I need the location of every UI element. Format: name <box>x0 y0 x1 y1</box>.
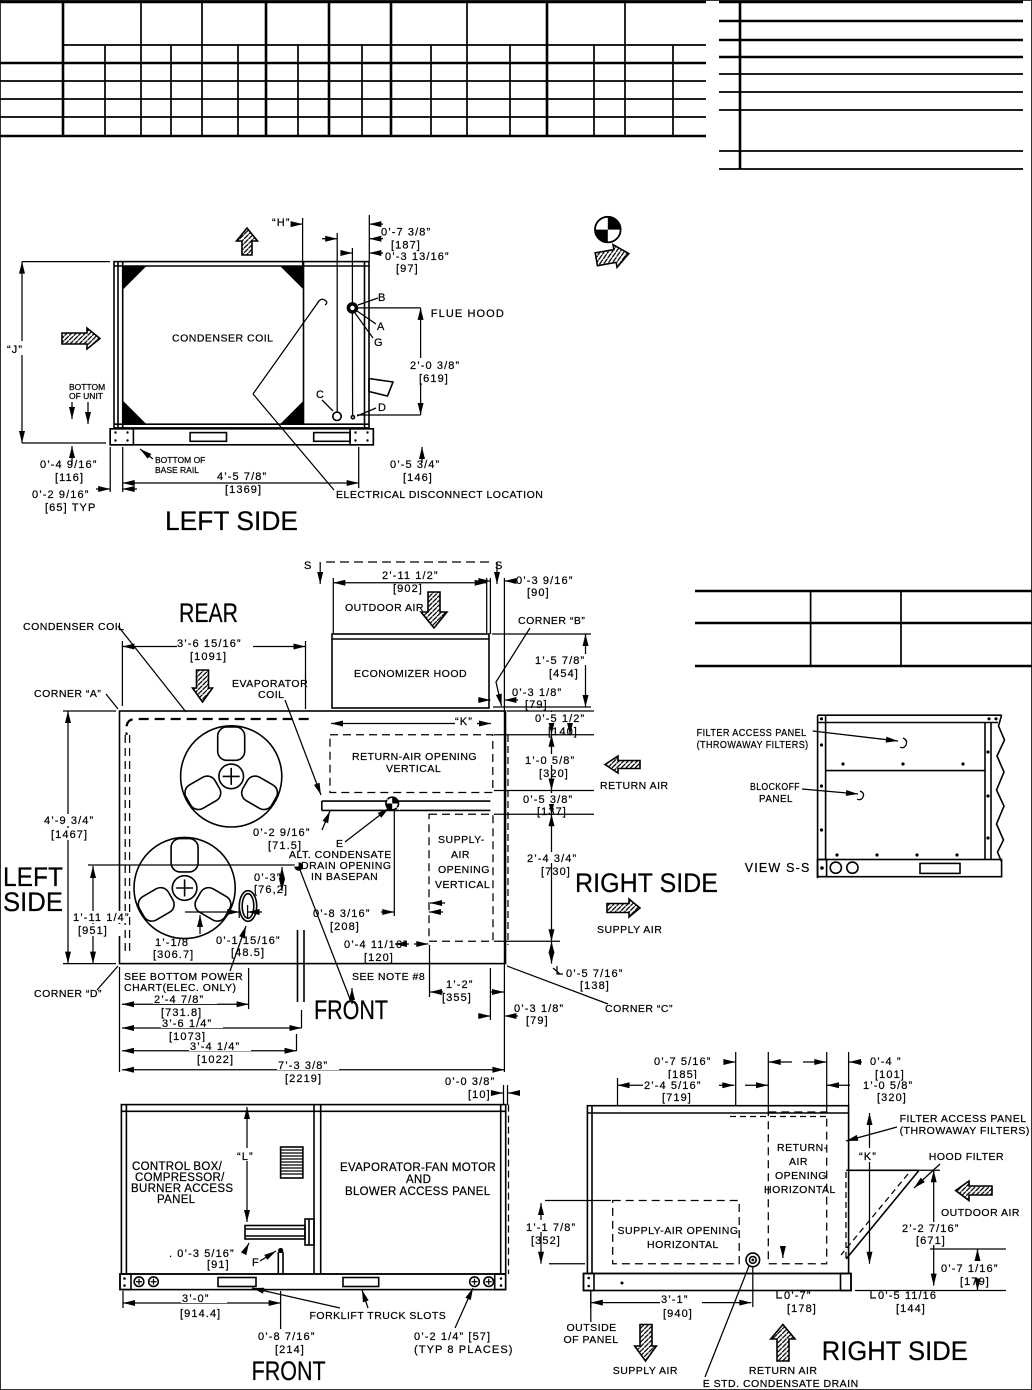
svg-text:[1022]: [1022] <box>197 1054 234 1066</box>
svg-text:CORNER “D”: CORNER “D” <box>34 988 102 1000</box>
filter access panel label (right side) <box>846 1113 1030 1141</box>
svg-text:[454]: [454] <box>549 668 579 680</box>
svg-text:VERTICAL: VERTICAL <box>435 879 490 891</box>
right side base rail <box>584 1274 852 1291</box>
dim 0'-4 11/16 [120] <box>344 939 428 964</box>
svg-text:[719]: [719] <box>662 1092 692 1104</box>
unit outline (plan) <box>120 711 506 964</box>
E condensate labels <box>289 808 392 883</box>
dim 0'-7 3/8 [187] <box>322 227 431 413</box>
svg-text:FORKLIFT TRUCK SLOTS: FORKLIFT TRUCK SLOTS <box>310 1310 447 1322</box>
dim 2'-2 7/16 [671] <box>901 1170 971 1285</box>
svg-text:HORIZONTAL: HORIZONTAL <box>764 1184 836 1196</box>
svg-text:(THROWAWAY FILTERS): (THROWAWAY FILTERS) <box>900 1125 1030 1137</box>
see bottom power chart <box>124 926 246 994</box>
filter access panel label <box>697 727 907 751</box>
svg-text:PANEL: PANEL <box>759 793 793 805</box>
dim 3'-0 [914.4] <box>123 1291 281 1329</box>
corner B label <box>496 615 585 706</box>
svg-text:4’-9 3/4”: 4’-9 3/4” <box>44 815 94 827</box>
svg-text:[208]: [208] <box>330 921 360 933</box>
svg-text:[179]: [179] <box>960 1276 990 1288</box>
svg-text:A: A <box>377 321 385 333</box>
dim 2'-4 5/16 [719] <box>618 1079 735 1104</box>
dim 0'-1 15/16 [48.5] <box>185 905 281 959</box>
fan 2 <box>134 837 235 938</box>
dim 1'-11 1/4 [951] <box>72 865 298 964</box>
evaporator coil band <box>322 801 491 810</box>
svg-text:OUTSIDE: OUTSIDE <box>567 1322 617 1334</box>
corner A label <box>34 688 118 709</box>
svg-text:D: D <box>378 402 387 414</box>
svg-text:[671]: [671] <box>916 1235 946 1247</box>
economizer hood right offset dims <box>478 575 573 634</box>
svg-text:[187]: [187] <box>391 240 421 252</box>
supply air arrow + label <box>597 899 662 936</box>
view s-s filter panel line <box>820 717 998 856</box>
svg-text:[140]: [140] <box>548 726 578 738</box>
supply air arrow + label (bottom) <box>613 1325 678 1378</box>
svg-text:LEFT SIDE: LEFT SIDE <box>165 506 298 536</box>
K dim <box>331 715 491 728</box>
condensate drain (right side) <box>703 1253 859 1390</box>
svg-text:RETURN AIR: RETURN AIR <box>600 780 669 792</box>
view s-s cabinet outline <box>818 715 1005 878</box>
drain oval <box>239 891 256 922</box>
flue hood shape <box>369 379 393 397</box>
svg-text:G: G <box>374 337 384 349</box>
gas connection <box>245 1219 314 1245</box>
dim 4'-5 7/8 [1369] <box>123 447 359 496</box>
svg-text:“K”: “K” <box>455 716 473 728</box>
LEFT SIDE view: unit outline <box>114 262 369 428</box>
section S-S cut marks <box>304 560 503 584</box>
LEFT SIDE title (plan) <box>3 862 63 917</box>
dim 0'-0 3/8 [10] <box>445 1076 520 1105</box>
svg-text:[90]: [90] <box>527 587 550 599</box>
dim 0'-2 1/4 [57] typ <box>414 1288 514 1356</box>
svg-text:S: S <box>304 560 312 572</box>
dim 0'-8 7/16 [214] <box>258 1331 315 1356</box>
svg-text:0’-8 7/16”: 0’-8 7/16” <box>258 1331 315 1343</box>
svg-text:0’-5 11/16: 0’-5 11/16 <box>878 1290 937 1302</box>
view s-s base <box>818 860 1002 877</box>
point C <box>316 389 341 420</box>
svg-text:0’-3 1/8”: 0’-3 1/8” <box>514 1003 564 1015</box>
svg-text:S: S <box>495 560 503 572</box>
svg-text:0’-5 3/4”: 0’-5 3/4” <box>390 459 440 471</box>
svg-text:[146]: [146] <box>403 472 433 484</box>
dim 0'-7 5/16 [185] <box>654 1056 792 1081</box>
svg-text:3’-0”: 3’-0” <box>182 1293 210 1305</box>
svg-text:1’-11 1/4”: 1’-11 1/4” <box>73 912 130 924</box>
svg-text:RETURN AIR: RETURN AIR <box>749 1365 818 1377</box>
svg-text:4’-5 7/8”: 4’-5 7/8” <box>217 471 267 483</box>
dim 0'-2 9/16 [65] TYP <box>32 447 137 514</box>
supply-air opening horizontal (dashed) <box>613 1201 740 1264</box>
flue hood circle B <box>348 292 386 349</box>
electrical disconnect leader <box>253 299 543 501</box>
svg-text:FILTER ACCESS PANEL: FILTER ACCESS PANEL <box>900 1113 1027 1125</box>
svg-text:RETURN-: RETURN- <box>777 1142 828 1154</box>
svg-text:[320]: [320] <box>539 768 569 780</box>
outdoor air label + arrow <box>345 592 447 628</box>
louver grille <box>281 1147 303 1178</box>
svg-text:C: C <box>316 389 325 401</box>
drain pipe below <box>298 930 305 1002</box>
svg-text:OPENING: OPENING <box>775 1170 827 1182</box>
dim 1'-0 5/8 [320] <box>745 1080 913 1104</box>
svg-text:BASE RAIL: BASE RAIL <box>155 465 199 475</box>
svg-text:0’-5 1/2”: 0’-5 1/2” <box>535 713 585 725</box>
svg-text:1’-0 5/8”: 1’-0 5/8” <box>525 755 575 767</box>
svg-text:ECONOMIZER HOOD: ECONOMIZER HOOD <box>354 668 467 680</box>
svg-text:CORNER “C”: CORNER “C” <box>605 1003 673 1015</box>
flue hood dim 2'-0 3/8 [619] <box>358 308 505 415</box>
condenser coil dashed outline <box>125 719 309 956</box>
evaporator coil label + leader <box>232 678 321 795</box>
svg-text:[940]: [940] <box>663 1308 693 1320</box>
svg-text:“L”: “L” <box>237 1151 254 1163</box>
svg-text:CORNER “A”: CORNER “A” <box>34 688 101 700</box>
svg-text:B: B <box>378 292 386 304</box>
svg-text:[214]: [214] <box>275 1344 305 1356</box>
return-air opening vertical (dashed) <box>330 735 493 793</box>
svg-text:0’-4 11/16”: 0’-4 11/16” <box>344 939 408 951</box>
supply-air opening vertical (dashed) <box>429 814 493 941</box>
H dimension <box>272 215 383 266</box>
dim 0'-2 9/16 [71.5] <box>253 811 330 852</box>
svg-text:[76,2]: [76,2] <box>254 884 288 896</box>
svg-text:E STD. CONDENSATE DRAIN: E STD. CONDENSATE DRAIN <box>703 1378 859 1390</box>
svg-text:BOTTOM OF: BOTTOM OF <box>155 455 205 465</box>
svg-text:“K”: “K” <box>859 1151 877 1163</box>
return air arrow + label <box>600 756 669 792</box>
svg-text:SUPPLY AIR: SUPPLY AIR <box>597 924 662 936</box>
svg-text:1’-1/8: 1’-1/8 <box>155 937 189 949</box>
K dim (right side) <box>858 1113 882 1264</box>
svg-text:[320]: [320] <box>877 1092 907 1104</box>
svg-text:[138]: [138] <box>580 980 610 992</box>
dim 1'-1/8 [306.7] <box>153 915 200 961</box>
dim 0'-3 [76.2] <box>254 867 288 896</box>
svg-text:[730]: [730] <box>541 866 571 878</box>
dim 0'-3 1/8 [79] lower <box>478 968 564 1027</box>
L dim <box>236 1107 258 1222</box>
dim 1'-1 7/8 [352] <box>525 1201 611 1264</box>
svg-text:FLUE HOOD: FLUE HOOD <box>431 308 505 320</box>
corner C label <box>507 966 673 1015</box>
top-left data table grid <box>0 2 706 136</box>
svg-text:[355]: [355] <box>442 992 472 1004</box>
top hatched arrow (up) <box>237 228 258 255</box>
svg-text:RETURN-AIR OPENING: RETURN-AIR OPENING <box>352 751 477 763</box>
base rail <box>110 429 373 445</box>
svg-text:[1369]: [1369] <box>225 484 262 496</box>
compass hatched arrow <box>594 242 630 270</box>
svg-text:IN BASEPAN: IN BASEPAN <box>311 871 378 883</box>
svg-text:1’-5 7/8”: 1’-5 7/8” <box>535 655 585 667</box>
svg-text:0’-4 9/16”: 0’-4 9/16” <box>40 459 97 471</box>
S section line right edge <box>503 578 505 1072</box>
svg-text:(THROWAWAY FILTERS): (THROWAWAY FILTERS) <box>697 739 809 751</box>
dim 1'-2 [355] <box>430 945 505 1004</box>
mid-right small table <box>695 591 1032 666</box>
svg-text:1’-0 5/8”: 1’-0 5/8” <box>863 1080 913 1092</box>
svg-text:[116]: [116] <box>55 472 84 484</box>
svg-text:CONDENSER COIL: CONDENSER COIL <box>172 333 274 345</box>
svg-text:VERTICAL: VERTICAL <box>386 763 441 775</box>
svg-text:0’-8 3/16”: 0’-8 3/16” <box>313 908 370 920</box>
svg-text:SUPPLY-AIR OPENING: SUPPLY-AIR OPENING <box>618 1225 739 1237</box>
svg-text:0’-1 15/16”: 0’-1 15/16” <box>216 935 281 947</box>
svg-text:[914.4]: [914.4] <box>180 1308 221 1320</box>
svg-text:OPENING: OPENING <box>438 864 490 876</box>
svg-text:F: F <box>252 1257 260 1269</box>
svg-text:[951]: [951] <box>78 925 108 937</box>
dim 0'-4 9/16 [116] <box>40 446 97 484</box>
svg-text:0’-4 ”: 0’-4 ” <box>870 1056 902 1068</box>
svg-text:0’-2 1/4” [57]: 0’-2 1/4” [57] <box>414 1331 491 1343</box>
dim 3'-1 [940] <box>591 1292 752 1320</box>
bottom dims group <box>120 967 505 1085</box>
svg-text:[1091]: [1091] <box>190 651 227 663</box>
svg-text:SIDE: SIDE <box>3 887 63 917</box>
svg-text:OUTDOOR AIR: OUTDOOR AIR <box>941 1207 1020 1219</box>
svg-text:HOOD FILTER: HOOD FILTER <box>929 1151 1004 1163</box>
svg-text:0’-7 5/16”: 0’-7 5/16” <box>654 1056 711 1068</box>
return air arrow + label (bottom) <box>749 1325 818 1378</box>
dim 1'-5 7/8 [454] <box>492 634 592 707</box>
svg-text:BLOWER ACCESS PANEL: BLOWER ACCESS PANEL <box>345 1186 491 1198</box>
right side vertical dims <box>494 711 623 992</box>
bottom of base rail label <box>140 449 205 475</box>
svg-text:PANEL: PANEL <box>157 1194 196 1206</box>
svg-text:0’-3 1/8”: 0’-3 1/8” <box>512 687 562 699</box>
svg-text:REAR: REAR <box>179 598 238 628</box>
svg-text:RIGHT SIDE: RIGHT SIDE <box>822 1336 968 1366</box>
svg-text:VIEW S-S: VIEW S-S <box>745 861 811 875</box>
svg-text:[144]: [144] <box>896 1303 926 1315</box>
F label + drain pipe <box>252 1248 283 1274</box>
svg-text:[2219]: [2219] <box>285 1073 322 1085</box>
alt condensate drain dot <box>294 862 303 871</box>
economizer hood <box>332 634 489 708</box>
svg-text:0’-2 9/16”: 0’-2 9/16” <box>32 489 89 501</box>
svg-text:AND: AND <box>406 1174 431 1186</box>
hood filter label <box>914 1151 1004 1188</box>
svg-text:[120]: [120] <box>364 952 394 964</box>
svg-text:COIL: COIL <box>258 689 285 701</box>
svg-text:[91]: [91] <box>207 1259 230 1271</box>
svg-text:0’-3 13/16”: 0’-3 13/16” <box>385 251 450 263</box>
svg-text:0’-7”: 0’-7” <box>784 1290 812 1302</box>
J dimension <box>6 262 110 443</box>
svg-text:[619]: [619] <box>419 373 449 385</box>
svg-text:FILTER ACCESS PANEL: FILTER ACCESS PANEL <box>697 727 807 739</box>
svg-text:OF PANEL: OF PANEL <box>564 1334 619 1346</box>
dim 0'-8 3/16 [208] <box>313 810 443 933</box>
svg-text:0’-3 9/16”: 0’-3 9/16” <box>516 575 573 587</box>
svg-text:EVAPORATOR-FAN MOTOR: EVAPORATOR-FAN MOTOR <box>340 1162 496 1174</box>
dim 4'-9 3/4 [1467] <box>43 711 116 964</box>
small drain offset arrow <box>782 1246 784 1258</box>
condenser coil corner triangles <box>124 267 304 424</box>
svg-text:3’-6 1/4”: 3’-6 1/4” <box>162 1018 212 1030</box>
right side cabinet outline <box>587 1106 848 1274</box>
return-air opening horizontal (dashed) <box>764 1112 836 1264</box>
svg-text:CORNER “B”: CORNER “B” <box>518 615 585 627</box>
dim 0'-4 [101] <box>803 1056 905 1081</box>
svg-text:CHART(ELEC. ONLY): CHART(ELEC. ONLY) <box>124 982 237 994</box>
svg-text:1’-1 7/8”: 1’-1 7/8” <box>526 1222 576 1234</box>
see note 8 <box>300 870 425 1004</box>
evaporator fan label <box>340 1162 496 1198</box>
svg-text:3’-6 15/16”: 3’-6 15/16” <box>177 638 242 650</box>
svg-text:[306.7]: [306.7] <box>153 949 194 961</box>
svg-text:0’-3”: 0’-3” <box>254 872 282 884</box>
svg-text:0’-7 3/8”: 0’-7 3/8” <box>381 227 431 239</box>
top extension lines <box>618 1052 849 1112</box>
svg-text:[79]: [79] <box>525 699 548 711</box>
svg-text:2’-2 7/16”: 2’-2 7/16” <box>902 1223 959 1235</box>
dim 0'-7 [178] <box>777 1290 817 1315</box>
svg-text:[902]: [902] <box>393 583 423 595</box>
svg-text:OUTDOOR AIR: OUTDOOR AIR <box>345 602 424 614</box>
svg-text:SUPPLY-: SUPPLY- <box>438 834 485 846</box>
dim 3'-6 15/16 [1091] <box>122 638 305 709</box>
svg-text:[10]: [10] <box>468 1089 491 1101</box>
compass quadrant symbol <box>595 217 621 243</box>
svg-text:OF UNIT: OF UNIT <box>69 391 103 401</box>
svg-text:AIR: AIR <box>789 1156 808 1168</box>
svg-text:0’-0 3/8”: 0’-0 3/8” <box>445 1076 495 1088</box>
svg-text:2’-4 5/16”: 2’-4 5/16” <box>644 1080 701 1092</box>
svg-text:[79]: [79] <box>526 1015 549 1027</box>
dim 0'-7 1/16 [179] <box>855 1249 1006 1291</box>
dim 0'-5 3/4 [146] <box>390 447 440 484</box>
dim 2'-11 1/2 [902] <box>333 570 486 633</box>
hood filter shape <box>841 1170 940 1260</box>
front base rail <box>120 1274 506 1290</box>
bottom of unit label <box>69 382 105 424</box>
blockoff panel label <box>750 781 864 805</box>
svg-text:HORIZONTAL: HORIZONTAL <box>647 1239 719 1251</box>
point D <box>351 402 420 419</box>
svg-text:RIGHT SIDE: RIGHT SIDE <box>575 868 718 898</box>
svg-text:1’-2”: 1’-2” <box>446 979 474 991</box>
svg-text:“H”: “H” <box>272 217 291 229</box>
top-right notes table <box>719 2 1023 169</box>
left hatched arrow (airflow right) <box>62 328 100 349</box>
svg-text:3’-4 1/4”: 3’-4 1/4” <box>190 1041 240 1053</box>
svg-text:FRONT: FRONT <box>252 1356 326 1386</box>
condensate drain symbol E <box>384 797 400 810</box>
svg-text:AIR: AIR <box>451 849 470 861</box>
svg-text:[97]: [97] <box>396 263 419 275</box>
dim 0'-5 11/16 [144] <box>871 1290 937 1315</box>
svg-text:0’-2 9/16”: 0’-2 9/16” <box>253 827 310 839</box>
svg-text:“J”: “J” <box>7 344 23 356</box>
svg-text:0’-7 1/16”: 0’-7 1/16” <box>941 1263 998 1275</box>
svg-text:SEE NOTE #8: SEE NOTE #8 <box>352 971 425 983</box>
outdoor air arrow + label (right side) <box>941 1181 1020 1219</box>
svg-text:[1467]: [1467] <box>51 829 88 841</box>
svg-text:CONDENSER COIL: CONDENSER COIL <box>23 621 125 633</box>
svg-text:[65] TYP: [65] TYP <box>45 502 96 514</box>
svg-text:3’-1”: 3’-1” <box>661 1294 689 1306</box>
dim 0'-3 1/8 [79] upper <box>478 687 562 711</box>
corner D label <box>34 966 118 1000</box>
front cabinet outline <box>121 1105 508 1274</box>
forklift truck slots label <box>252 1288 446 1322</box>
fan 1 <box>181 726 282 827</box>
svg-text:(TYP 8 PLACES): (TYP 8 PLACES) <box>414 1344 514 1356</box>
svg-text:ELECTRICAL DISCONNECT LOCATION: ELECTRICAL DISCONNECT LOCATION <box>336 489 543 501</box>
svg-text:0’-5 7/16”: 0’-5 7/16” <box>566 968 623 980</box>
svg-text:BLOCKOFF: BLOCKOFF <box>750 781 800 793</box>
svg-text:2’-0 3/8”: 2’-0 3/8” <box>410 360 460 372</box>
svg-text:2’-4 7/8”: 2’-4 7/8” <box>154 994 204 1006</box>
dim 0'-3 5/16 [91] <box>169 1243 249 1271</box>
dim 0'-3 13/16 [97] <box>342 248 450 416</box>
svg-text:2’-11 1/2”: 2’-11 1/2” <box>382 570 439 582</box>
svg-text:SUPPLY AIR: SUPPLY AIR <box>613 1365 678 1377</box>
svg-text:7’-3 3/8”: 7’-3 3/8” <box>278 1060 328 1072</box>
control box label <box>131 1161 233 1206</box>
rear hatched arrow (down) <box>193 670 213 702</box>
outside of panel label <box>564 1291 619 1347</box>
svg-text:FRONT: FRONT <box>314 995 388 1025</box>
svg-text:[178]: [178] <box>787 1303 817 1315</box>
svg-text:0’-5 3/8”: 0’-5 3/8” <box>523 794 573 806</box>
condenser coil label + leader <box>23 621 186 712</box>
svg-text:[352]: [352] <box>531 1235 561 1247</box>
svg-text:2’-4 3/4”: 2’-4 3/4” <box>527 853 577 865</box>
